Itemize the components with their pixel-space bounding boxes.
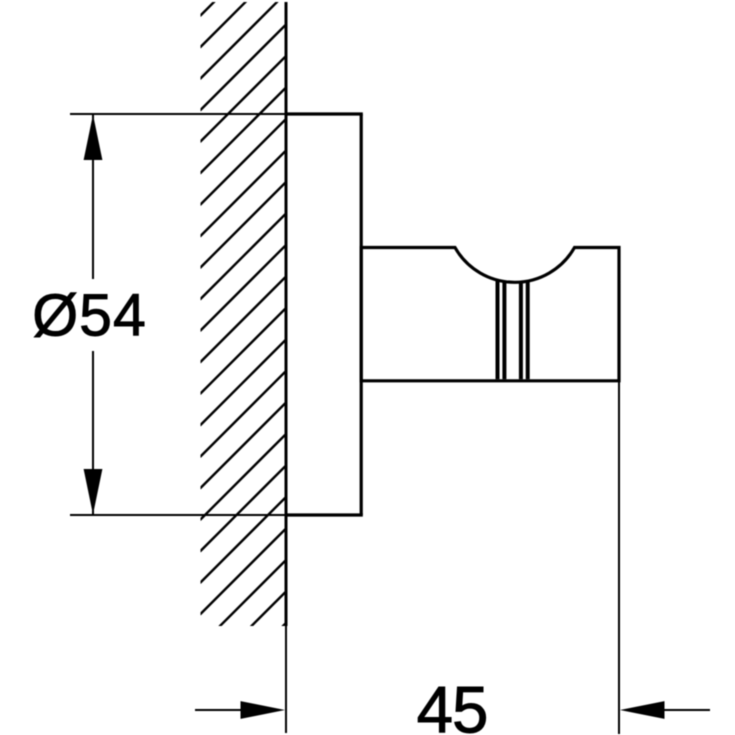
svg-text:Ø54: Ø54 bbox=[32, 283, 147, 349]
svg-text:45: 45 bbox=[417, 674, 488, 735]
